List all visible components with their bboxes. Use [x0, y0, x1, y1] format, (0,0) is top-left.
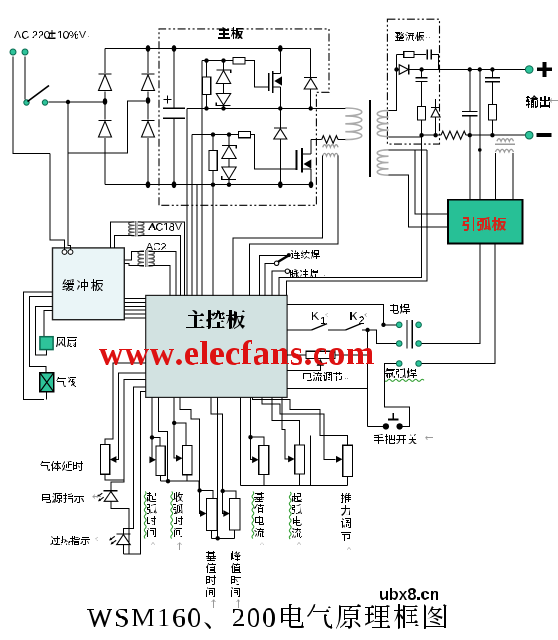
wire: feed to torch switch — [287, 388, 383, 426]
wire: pot5 top link — [223, 491, 236, 499]
wire: Q2 source — [310, 169, 312, 185]
wire: negative bottom bus — [105, 184, 312, 186]
potentiometer RP3 收弧时间 — [183, 446, 192, 475]
wire: LED2 cathode + common return — [123, 392, 145, 555]
wire tap1: AC-L1 to buffer entry A — [50, 154, 65, 250]
wire: to 连续焊 lever — [259, 255, 286, 295]
wire: 氩弧焊 left pin to torch switch — [384, 364, 409, 427]
label 峰值时间 (vertical) — [231, 551, 241, 608]
label K2 — [349, 312, 372, 324]
wire: T1 right leads to control board — [138, 222, 185, 296]
junction D1a — [172, 421, 176, 425]
wire: pot1 bottom — [105, 474, 124, 480]
wire: control sense — [212, 185, 214, 296]
wire: control to rail B — [186, 108, 188, 295]
wire: pot4 bottom — [211, 531, 213, 539]
wire: T2 left leads to buffer — [124, 252, 144, 266]
junction dots negative rail — [468, 133, 495, 137]
label 风扇 — [56, 337, 77, 347]
title WSM160、200电气原理框图 — [87, 604, 447, 629]
switch 脉冲焊 contact — [285, 269, 289, 273]
potentiometer RP5 峰值时间 — [230, 499, 240, 530]
wire: secondary1 top to rectifier — [389, 70, 397, 111]
wire: feed pot5 — [211, 397, 223, 491]
junction dots rail A — [204, 58, 225, 62]
board: arc-starter board 引弧板 green box — [448, 200, 523, 244]
diode pair Z3/Z4 (lower clamp) — [222, 135, 236, 185]
wire: K out down to torch switch — [367, 330, 369, 426]
wire: feed pot2 — [152, 397, 155, 459]
wire: pot6 top link — [251, 437, 264, 445]
capacitor C4 (mid filter) — [462, 70, 478, 136]
board outline: main board 主板 dashed box — [159, 29, 329, 205]
resistor R2 (snubber, vertical) — [202, 61, 210, 109]
potentiometer RP9 电流调节 — [287, 351, 368, 358]
junction: K chain out — [365, 328, 369, 332]
wire: switch to bridge left leg — [49, 101, 104, 103]
snubber R5 + C2 (RC across diode) — [397, 49, 439, 69]
label 缓冲板 — [62, 279, 103, 291]
RP3 wiper arrow — [176, 455, 183, 462]
junction D3a — [166, 479, 170, 483]
label AC18V — [148, 223, 182, 231]
junction Dbot — [216, 536, 220, 540]
transistor Q2 (lower IGBT) — [297, 148, 312, 172]
inductor L2 (output zigzag) — [441, 131, 466, 139]
wire: arc board to welding connector row2 — [421, 244, 479, 344]
switch K2 — [346, 324, 368, 330]
RP8 wiper arrow — [336, 456, 343, 463]
label ubx8.cn — [380, 588, 438, 600]
junction: tap to buffer — [66, 100, 70, 104]
junction D6a — [248, 435, 252, 439]
label 气阀 — [56, 377, 76, 387]
wire: buffer to fan feed — [44, 311, 53, 337]
wire: bridge left column — [104, 49, 106, 185]
wire bundle: buffer to control board (6 wires) — [124, 299, 145, 319]
label 基值电流 (vertical) — [252, 492, 264, 551]
wire: rectifier input node — [394, 54, 398, 110]
capacitor C5 + resistor R7 (output snubber) — [485, 70, 500, 136]
wire: row1 feed — [287, 304, 396, 325]
wire: ground rail pots4-5 — [212, 537, 235, 539]
switch 手把开关 symbol — [388, 413, 399, 420]
switch K1 — [287, 324, 345, 330]
wire: Q1 source — [279, 87, 281, 108]
terminal AC-L2 (green) — [22, 49, 28, 55]
component 气阀 gas valve (green) — [40, 373, 54, 392]
buffer input pin B — [68, 250, 73, 255]
RP5 wiper arrow — [223, 510, 230, 517]
board outline: rectifier board 整流板 dashed box — [387, 19, 439, 144]
junction dots bottom bus — [211, 181, 314, 188]
RP2 wiper arrow — [149, 456, 156, 463]
wire: rectifier neg rail — [422, 134, 441, 136]
wire: rail to D4 riser — [198, 481, 200, 490]
potentiometer RP6 基值电流 — [259, 446, 269, 475]
wire: staircase pot8 top — [252, 397, 347, 445]
label 气体延时 — [40, 461, 83, 471]
label 连续焊 — [291, 250, 325, 259]
junction dots rail B — [204, 106, 313, 110]
wire: pot3 bottom — [186, 475, 188, 482]
wire: feed pot4 — [180, 397, 199, 490]
label 电焊 — [390, 304, 410, 314]
LED1 emission arrows — [97, 493, 104, 501]
wire: HF secondary leads to arc board — [495, 153, 513, 200]
wire: secondary2 top to control board — [287, 150, 427, 296]
node: bridge right AC node — [146, 97, 151, 104]
capacitor C1 leads — [173, 49, 175, 185]
RP4 wiper arrow — [200, 510, 207, 517]
wire: rail riser — [159, 397, 168, 481]
wire: secondary2 top lead — [389, 149, 427, 151]
wire: buffer to fan return — [36, 307, 53, 356]
wire: stub3 to LED1 — [111, 380, 146, 491]
switch S1 pole (green) — [24, 100, 29, 105]
zener ZD1 — [431, 99, 440, 135]
wire: control to rail C — [191, 135, 193, 296]
wire: valve bottom — [46, 392, 48, 400]
transformer T1 AC18V windings — [129, 221, 144, 237]
wire: stub2 to pot1 wiper — [115, 373, 146, 460]
junction dots neg rail — [419, 133, 437, 137]
label 电流调节 — [303, 372, 348, 381]
wire: gate rail A — [202, 61, 269, 87]
junction dot D7 cathode — [419, 67, 423, 71]
potentiometer RP4 基值时间 — [207, 499, 217, 531]
symbol - (output negative) — [537, 133, 552, 137]
label 过热指示 — [50, 536, 103, 545]
wire: feed pot6 — [251, 397, 253, 459]
RP6 wiper arrow — [252, 456, 259, 463]
terminal output + (green) — [525, 66, 533, 74]
wire: pot4 wiper lead — [200, 491, 204, 514]
wire: Q2 drain — [310, 140, 312, 155]
label 起弧电流 (vertical) — [289, 492, 302, 550]
potentiometer RP1 气体延时 — [101, 445, 110, 475]
connector 氩弧焊 pins (green) — [396, 361, 421, 367]
junction D2a — [150, 435, 154, 439]
LED LED2 过热指示 — [116, 534, 130, 545]
label 引弧板 (red) — [462, 217, 506, 231]
wire: pot5 wiper lead — [223, 491, 228, 514]
potentiometer RP2 起弧时间 — [156, 446, 165, 476]
connector 电焊 bars — [407, 320, 412, 349]
buffer input pin A — [62, 250, 67, 255]
wire: positive sense down to arc board — [478, 70, 482, 200]
wire: pot3 top link — [174, 423, 186, 446]
wire: control to bottom bus — [196, 185, 198, 296]
component 风扇 fan (green) — [40, 337, 53, 350]
wire tap2: switch node to buffer entry B — [68, 102, 71, 250]
wire: to 脉冲焊 contact — [272, 271, 285, 295]
label AC2 — [146, 243, 166, 250]
connector 电焊 pins (green) — [396, 322, 421, 346]
wire: mid rail B — [187, 107, 345, 109]
wire: T3 primary lead 2 to control board — [250, 156, 338, 296]
wire: positive rail — [397, 69, 526, 71]
label K1 — [311, 312, 333, 324]
label 整流板 — [395, 32, 430, 41]
label 推力调节 (vertical) — [341, 493, 351, 555]
wire: feed pot3 — [174, 397, 181, 458]
HF transformer T3 primary (gray wavy) — [323, 145, 338, 156]
wire AC-L2: terminal to switch — [24, 56, 26, 99]
junction dots on buses — [146, 45, 177, 188]
wire: T2 right leads to control board — [148, 252, 175, 296]
switch S1 lever — [28, 86, 50, 102]
wire: pot6 bottom to rail — [263, 475, 265, 486]
watermark www.elecfans.com — [99, 340, 374, 365]
wire: pot8 bottom — [347, 477, 349, 486]
switch 连续焊 contact — [274, 261, 278, 265]
wire: stub1 to pot1 top — [105, 363, 146, 445]
wire: pot4 top link — [200, 491, 213, 499]
wire: stub4 to LED2 — [123, 387, 145, 534]
wire: rail riser to board — [240, 397, 242, 485]
label 电源指示 — [42, 493, 101, 503]
switch 手把开关 contacts — [383, 423, 403, 429]
wire: positive top bus — [105, 48, 311, 50]
wire: bottom common rail — [241, 485, 348, 487]
diode D7 (output rectifier) — [399, 65, 409, 75]
wire: arc board to TIG connector — [421, 244, 494, 364]
diode D4 bridge lower-right — [142, 120, 155, 139]
wire: secondary2 top to arc board — [415, 150, 448, 214]
wire: secondary1 bottom (center tap) to neg rail — [389, 136, 422, 138]
wire: rail riser mid — [310, 435, 312, 485]
wire: to 连续焊 contact — [265, 263, 275, 295]
label 收弧时间 (vertical) — [171, 492, 183, 551]
wire: pot7 bottom — [299, 474, 301, 486]
junction: row1 — [381, 323, 385, 327]
switch S1 throw (green) — [42, 100, 47, 105]
label 起弧时间 (vertical) — [144, 492, 157, 551]
transformer T4 primary winding — [345, 108, 362, 140]
wire: staircase pot7 top — [272, 397, 300, 445]
wire: C4 column down to arc board — [469, 135, 471, 200]
wire: pot2 bottom — [160, 476, 162, 482]
switch 连续焊 lever — [278, 253, 291, 262]
diode D1 bridge upper-left — [99, 73, 112, 92]
label 主板 — [218, 27, 243, 39]
wire: T1 left leads to buffer — [111, 222, 135, 248]
wire: pot5 bottom — [234, 530, 236, 538]
label AC 220±10%V — [14, 30, 89, 39]
wire: LED1 cathode route — [111, 501, 129, 554]
diode D2 bridge lower-left — [99, 120, 112, 139]
transistor Q1 (upper IGBT) — [269, 71, 282, 93]
label 主控板 — [186, 310, 245, 329]
terminal AC-L1 (green) — [10, 49, 16, 55]
wire: staircase pot7 wiper — [282, 397, 289, 459]
symbol + (output positive) — [537, 62, 552, 77]
LED2 emission arrows — [109, 536, 116, 544]
wire: secondary2 bottom to arc board — [389, 175, 449, 227]
resistor R1 (gate, horizontal) — [233, 57, 245, 63]
label 输出 — [526, 95, 558, 108]
junction dots rail C — [211, 132, 231, 136]
wire: pot2 top link — [152, 437, 160, 446]
junction dots positive rail — [468, 67, 495, 71]
wire: gate rail C — [192, 135, 297, 170]
capacitor C3 + resistor R6 (filter leg) — [416, 70, 428, 136]
board: main control board 主控板 box — [146, 295, 287, 397]
wire: T3 primary lead 1 to control board — [233, 156, 323, 296]
label 手把开关 — [374, 434, 433, 444]
wire: switch node to bridge right leg — [68, 101, 146, 153]
diode D5 (upper freewheel) — [304, 49, 317, 109]
potentiometer RP9 wiper — [287, 359, 324, 371]
wire AC-L1: terminal down to buffer tap — [13, 56, 50, 153]
wire: rail riser pots4-5 — [217, 397, 219, 538]
board: buffer board 缓冲板 box — [53, 248, 125, 320]
capacitor C1 plus sign — [164, 96, 172, 104]
transformer T4 core — [369, 100, 371, 177]
diode D3 bridge upper-right — [142, 73, 155, 92]
junction D4a — [197, 488, 201, 492]
node: bridge left AC node — [103, 98, 108, 105]
inductor L1 (series zigzag) — [311, 136, 345, 144]
transformer T2 AC2 windings — [138, 250, 154, 267]
label 基值时间 (vertical) — [206, 551, 216, 608]
RP7 wiper arrow — [288, 456, 295, 463]
junction D5a — [221, 489, 225, 493]
wire: Q1 drain — [278, 45, 283, 73]
wire: K out to row2 — [368, 330, 397, 344]
transformer T4 secondary 1 — [377, 111, 388, 137]
LED LED1 电源指示 — [104, 491, 118, 501]
wire: control to rail A — [201, 61, 203, 296]
label 氩弧焊 — [384, 368, 424, 381]
label 脉冲焊 — [290, 269, 325, 278]
wire: neg rail sense to control board — [279, 135, 421, 295]
capacitor C1 plates — [163, 108, 185, 118]
terminal output - (green) — [525, 131, 533, 139]
wire: buffer to valve feed — [30, 296, 53, 373]
wire: staircase pot8 wiper — [262, 397, 335, 459]
wire: buffer to valve return — [24, 292, 53, 400]
diode D6 (lower freewheel) — [274, 108, 287, 184]
wire: negative rail to terminal — [466, 134, 525, 136]
wire: ground rail pots2-3 — [161, 480, 199, 482]
potentiometer RP8 推力调节 — [343, 445, 353, 476]
resistor R3 (gate, horizontal) — [239, 131, 251, 137]
wire: bridge right column — [147, 49, 149, 185]
resistor R4 (snubber, vertical) — [209, 135, 217, 185]
transformer T4 secondary 2 — [377, 150, 388, 175]
potentiometer RP7 起弧电流 — [295, 445, 305, 474]
diode pair Z1/Z2 (upper clamp) — [216, 61, 230, 109]
HF transformer T3 secondary (gray, in output) — [495, 139, 515, 152]
RP1 wiper arrow — [110, 456, 117, 463]
